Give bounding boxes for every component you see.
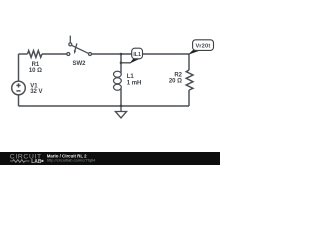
svg-text:SW2: SW2 (72, 61, 86, 67)
logo resistor zigzag (10, 160, 30, 163)
wire R2 to bottom-right corner (188, 90, 190, 106)
resistor R1 (28, 51, 43, 58)
probe IL1 bubble (132, 48, 143, 59)
junction dot top (node at L1 top) (120, 53, 123, 56)
svg-text:R2: R2 (174, 72, 182, 78)
probe Vr20t tail (188, 50, 201, 55)
svg-text:http://circuitlab.com/c/7fq64: http://circuitlab.com/c/7fq64 (47, 157, 96, 162)
voltage source V1 (12, 81, 26, 95)
probe IL1 leader wire (121, 62, 131, 64)
svg-text:10 Ω: 10 Ω (29, 68, 42, 74)
junction dot probe attach (120, 62, 123, 65)
wire R1 to SW2 left terminal (42, 53, 67, 55)
inductor L1 (114, 71, 122, 90)
switch SW2 (67, 36, 92, 56)
junction dot bottom (ground node) (120, 105, 123, 108)
svg-text:Vr20t: Vr20t (196, 44, 211, 50)
wire right rail to R2 (188, 54, 190, 70)
footer bar (0, 152, 220, 165)
svg-text:LAB: LAB (31, 159, 42, 165)
svg-text:32 V: 32 V (30, 89, 42, 95)
wire L1 to bottom junction (120, 89, 122, 107)
wire V1 bottom to bottom-left corner (18, 95, 20, 106)
svg-text:1 mH: 1 mH (127, 80, 142, 86)
ground (115, 106, 126, 118)
wire top from corner to R1 (19, 53, 28, 55)
svg-text:L1: L1 (127, 74, 135, 80)
svg-text:IL1: IL1 (133, 52, 141, 58)
wire top junction to L1 (120, 54, 122, 73)
switch SW2 arrowhead (74, 50, 76, 54)
probe Vr20t bubble (193, 40, 214, 51)
resistor R2 (186, 70, 193, 90)
svg-text:20 Ω: 20 Ω (169, 79, 182, 85)
logo square mark (41, 160, 43, 162)
wire left rail top (V1 top to top-left corner) (18, 54, 20, 81)
probe IL1 tail (129, 59, 139, 64)
wire SW2 right terminal to top-right corner (92, 53, 190, 55)
wire bottom rail (19, 105, 190, 107)
